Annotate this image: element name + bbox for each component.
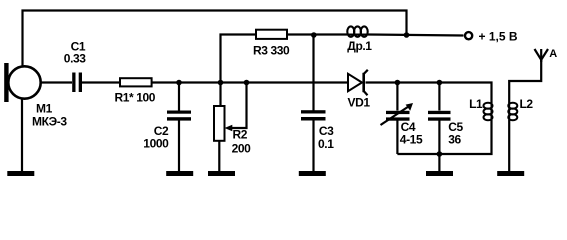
junction dots: [176, 32, 442, 157]
svg-text:МКЭ-3: МКЭ-3: [32, 115, 67, 129]
ground mic: [7, 171, 34, 176]
wire C5 to bottom rail: [438, 121, 440, 155]
svg-text:R3 330: R3 330: [253, 43, 290, 57]
svg-text:Др.1: Др.1: [347, 39, 372, 53]
wire mic to ground: [21, 99, 23, 171]
wire C4 branch: [396, 83, 398, 111]
svg-text:200: 200: [232, 142, 252, 156]
wire choke to terminal: [368, 35, 464, 36]
wire R1 to diode: [152, 81, 348, 83]
svg-text:A: A: [549, 48, 557, 60]
svg-text:0.33: 0.33: [64, 51, 86, 65]
wire C2 to ground: [178, 121, 180, 172]
C4 arrow: [381, 103, 414, 125]
battery terminal: [465, 32, 472, 39]
capacitor C2: [167, 111, 191, 121]
svg-text:R1* 100: R1* 100: [115, 91, 156, 105]
svg-text:L2: L2: [520, 97, 534, 111]
inductor L1: [484, 103, 493, 121]
capacitor C3: [301, 110, 326, 120]
svg-text:R2: R2: [233, 128, 248, 142]
capacitor C1: [72, 73, 82, 93]
wire C1 to R1: [82, 81, 120, 83]
svg-text:0.1: 0.1: [318, 137, 334, 151]
wire C4 to bottom rail: [396, 121, 398, 155]
wire C5 branch: [438, 83, 440, 111]
ground C3: [299, 171, 326, 176]
wire C2 branch: [178, 83, 180, 111]
wire antenna to L2: [509, 59, 541, 103]
svg-text:36: 36: [448, 132, 461, 146]
wire bottom rail: [397, 120, 491, 154]
svg-text:+ 1,5 В: + 1,5 В: [479, 30, 518, 44]
svg-text:4-15: 4-15: [400, 132, 423, 146]
wire C3 to ground: [312, 121, 314, 172]
svg-text:M1: M1: [36, 102, 53, 116]
wire main rail y=82.5: [40, 81, 72, 83]
wire ground drop C4C5: [438, 154, 440, 171]
wire C3 branch through main: [312, 35, 314, 111]
svg-text:1000: 1000: [143, 137, 169, 151]
ground C4C5: [426, 171, 453, 176]
microphone M1: [4, 63, 41, 102]
wire top rail: [23, 11, 407, 67]
svg-text:L1: L1: [469, 97, 483, 111]
R2 wiper arrow: [225, 83, 247, 132]
wire R3 to choke: [287, 33, 347, 35]
wire diode to L1 corner: [366, 83, 492, 104]
capacitor C4 (trimmer): [386, 111, 410, 121]
svg-text:C3: C3: [319, 124, 334, 138]
ground C2: [166, 171, 193, 176]
capacitor C5: [428, 111, 451, 121]
wire L2 to ground: [508, 120, 510, 171]
inductor L2: [508, 103, 517, 121]
choke Dr.1: [347, 26, 368, 36]
resistor R1: [120, 78, 152, 86]
ground R2: [208, 171, 235, 176]
wire supply rail y=34.5: [221, 35, 257, 107]
resistor R3: [256, 30, 287, 39]
antenna A: [535, 49, 549, 62]
resistor R2 (trimmer): [214, 106, 225, 141]
svg-text:VD1: VD1: [348, 96, 371, 110]
wire R2 to ground: [218, 141, 220, 171]
diode VD1: [348, 70, 368, 95]
ground L2: [497, 171, 524, 176]
